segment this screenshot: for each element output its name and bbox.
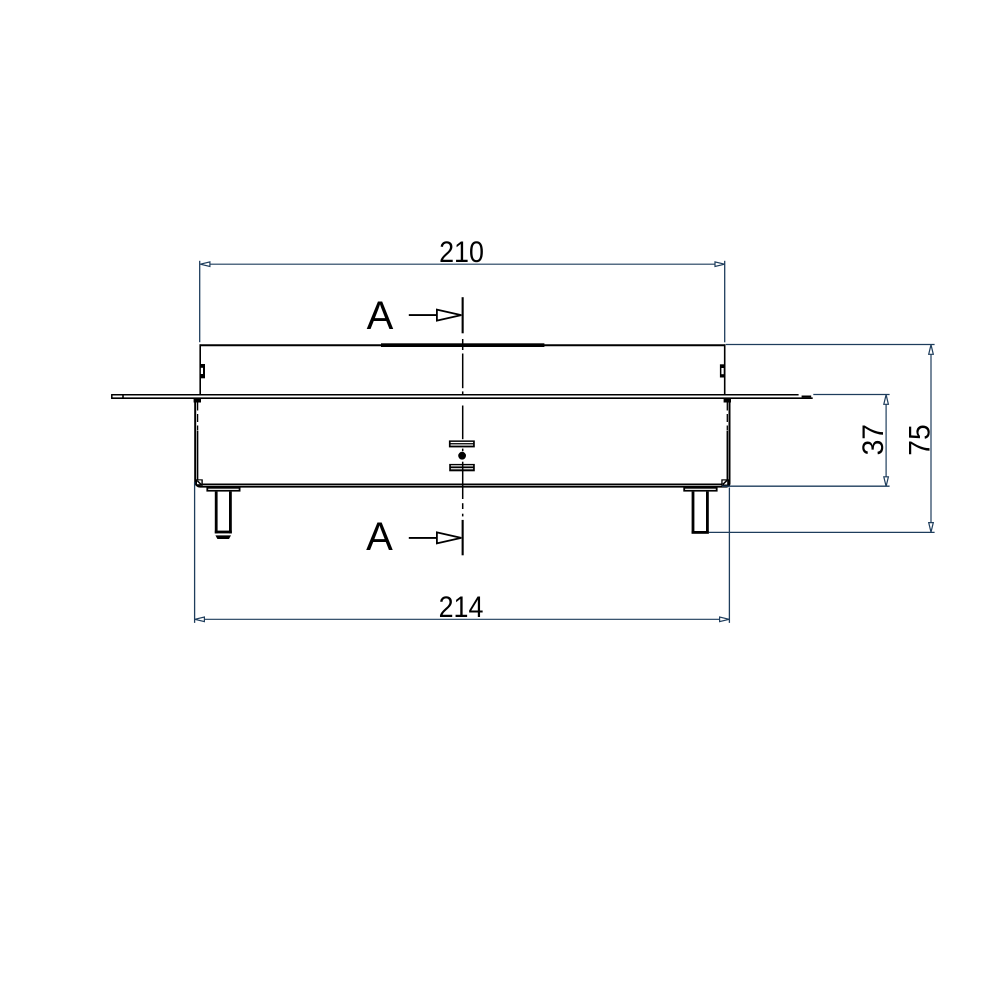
right wall inner solid line xyxy=(726,431,728,480)
upper box right edge xyxy=(724,344,726,394)
burner lid raised lip xyxy=(381,343,544,347)
left wall inner solid line xyxy=(197,431,199,480)
center knob lower bar xyxy=(449,464,475,471)
mounting flange bottom line xyxy=(111,397,812,399)
left flange joint block xyxy=(194,399,201,403)
svg-text:210: 210 xyxy=(439,236,484,269)
right leg mounting plate xyxy=(683,487,717,491)
upper box left edge xyxy=(199,344,201,394)
left leg column xyxy=(215,492,218,534)
section arrow top xyxy=(409,314,437,316)
section arrow bottom xyxy=(409,537,437,539)
section line thick end top xyxy=(462,297,464,333)
left side tab xyxy=(201,364,205,378)
svg-text:37: 37 xyxy=(857,424,890,455)
lower body inner bottom line xyxy=(203,483,722,485)
flange right end step xyxy=(802,396,812,398)
left leg mounting plate xyxy=(206,487,240,491)
left leg foot xyxy=(215,535,231,539)
section line A-A centre line xyxy=(462,339,464,516)
left bottom corner bracket xyxy=(196,479,203,485)
upper burner box top edge xyxy=(200,344,726,346)
dimension 214 xyxy=(194,482,196,623)
dimension 75 xyxy=(726,344,935,346)
dimension 37 xyxy=(813,394,889,396)
flange left end cap xyxy=(111,394,113,399)
right bottom corner bracket xyxy=(721,479,728,485)
svg-text:A: A xyxy=(367,294,394,338)
left wall inner hidden line xyxy=(197,403,199,431)
dimension 210 xyxy=(199,261,201,342)
lower body outer wall with rounded bottom corners xyxy=(195,399,729,487)
flange seam tick xyxy=(122,395,124,398)
section line thick end bottom xyxy=(462,520,464,555)
svg-text:75: 75 xyxy=(903,424,936,455)
svg-text:214: 214 xyxy=(439,591,484,624)
svg-text:A: A xyxy=(366,515,393,559)
right leg column xyxy=(692,492,695,534)
right side tab xyxy=(720,364,725,377)
right flange joint block xyxy=(724,399,731,403)
center knob upper bar xyxy=(449,440,475,447)
center knob dot xyxy=(458,452,466,460)
mounting flange top line xyxy=(111,394,798,396)
right wall inner hidden line xyxy=(726,403,728,431)
